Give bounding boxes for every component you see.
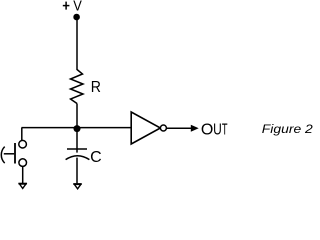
pushbutton switch S1 bottom contact [19, 159, 27, 167]
resistor R [71, 70, 84, 104]
arrowhead at OUT [191, 125, 199, 132]
wire inverter output to arrow [166, 127, 192, 129]
node +V label [63, 2, 70, 10]
svg-text:V: V [73, 0, 82, 14]
capacitor C top plate [67, 148, 87, 150]
svg-text:C: C [90, 149, 102, 166]
wire bend down to switch S1 [21, 128, 23, 141]
svg-text:R: R [91, 78, 101, 96]
inverter U1 output bubble [160, 125, 166, 131]
node +V terminal dot [73, 14, 80, 21]
node OUT label [201, 120, 228, 139]
capacitor C bottom curved plate [66, 156, 90, 160]
wire from capacitor C to ground [76, 158, 78, 184]
wire from resistor R to junction [76, 104, 78, 129]
junction node dot [74, 125, 81, 132]
wire horizontal bus from switch to inverter input [22, 127, 132, 129]
pushbutton switch S1 top contact [19, 140, 27, 148]
pushbutton switch S1 stem [4, 153, 14, 155]
svg-text:U: U [213, 120, 222, 138]
pushbutton switch S1 actuator bar [14, 143, 16, 164]
inverter U1 triangle [131, 112, 160, 144]
pushbutton switch S1 button cap [1, 147, 4, 164]
ground (switch side) [18, 184, 27, 189]
svg-text:T: T [222, 120, 228, 138]
ground (capacitor side) [73, 184, 81, 189]
svg-text:O: O [201, 122, 213, 139]
svg-text:Figure 2: Figure 2 [262, 122, 313, 136]
wire from +V to resistor R [76, 19, 78, 70]
wire from junction to capacitor C [76, 129, 78, 153]
wire from switch S1 to ground [22, 166, 24, 183]
